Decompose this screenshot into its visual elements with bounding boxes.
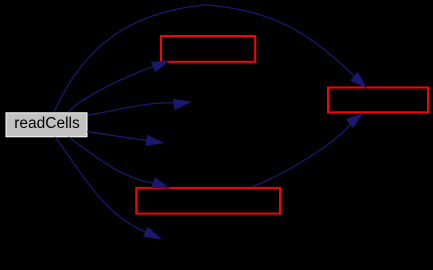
- node right box (red): [328, 88, 428, 113]
- edge bottom box->right box: [253, 122, 353, 187]
- edge readCells->hidden node 3 (bottom): [55, 137, 149, 233]
- node top box (red): [161, 36, 255, 62]
- edge readCells->hidden node 2: [87, 132, 150, 141]
- arrowhead hidden node 1: [174, 99, 191, 109]
- arrowhead to bottom box: [152, 178, 169, 188]
- arrowhead to top box: [152, 61, 169, 71]
- arrowhead hidden node 2: [146, 136, 163, 146]
- edge readCells->right box (top arc): [54, 5, 357, 112]
- node bottom box (red): [136, 188, 280, 214]
- node readCells (gray): [6, 113, 87, 137]
- edge readCells->bottom box: [69, 137, 157, 184]
- svg-text:readCells: readCells: [14, 115, 80, 132]
- edge readCells->hidden node 1: [88, 103, 176, 116]
- edge readCells->top box: [68, 66, 156, 112]
- arrowhead bottom->right: [347, 114, 363, 128]
- arrowhead top arc: [351, 73, 366, 88]
- arrowhead hidden node 3: [144, 227, 161, 238]
